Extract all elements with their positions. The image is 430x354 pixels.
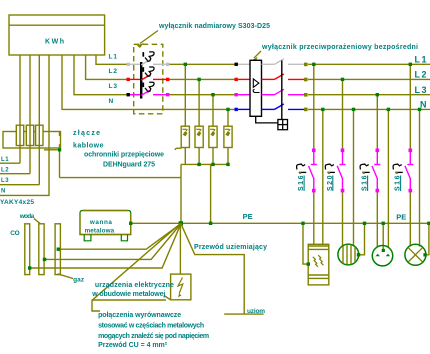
svg-text:w obudowie metalowej: w obudowie metalowej: [91, 291, 165, 298]
surge arrester feed 2 from L2: [198, 79, 200, 126]
breaker S16 trip hook: [393, 164, 402, 169]
fuse F3: [36, 125, 43, 145]
svg-text:YAKY4x25: YAKY4x25: [0, 199, 34, 206]
svg-text:L3: L3: [1, 178, 9, 184]
heater element zigzags: [313, 257, 318, 267]
pipe CO (pipe 2): [39, 224, 44, 275]
surge arrester V2: [195, 126, 203, 147]
svg-text:złącze: złącze: [73, 130, 100, 137]
svg-text:woda: woda: [19, 213, 35, 220]
bond junction dots on pipes: [28, 248, 60, 270]
breaker S16 label underline: [303, 176, 305, 192]
RCD test wire: [256, 116, 278, 123]
pipe gaz (pipe 3): [55, 224, 60, 275]
arrester down wire 3: [212, 148, 214, 165]
metal enclosure device box with lightning: [171, 274, 191, 300]
PEN-PE bridge bar: [44, 149, 60, 151]
woda leader line: [34, 219, 41, 224]
circuit 2 phase drop from L2: [342, 79, 344, 149]
arrow to breaker box: [137, 31, 158, 49]
lamp appliance: [405, 244, 426, 265]
arrester earth bus: [181, 163, 228, 165]
wire L2 olive after breaker: [169, 78, 235, 80]
svg-text:L1: L1: [109, 54, 118, 61]
breaker pole 3 blade and trip hook: [141, 90, 150, 95]
pipe woda (pipe 1): [25, 224, 30, 275]
svg-text:mogących znaleźć się pod napię: mogących znaleźć się pod napięciem: [98, 333, 209, 340]
RCD body U1: [250, 60, 262, 116]
wire meter input L2: [29, 55, 31, 174]
svg-text:wyłącznik nadmiarowy S303-D25: wyłącznik nadmiarowy S303-D25: [158, 23, 270, 30]
lightning bolt: [178, 278, 183, 294]
wire stubs into RCD colored: [238, 64, 250, 109]
circuit 4 wire below breaker: [409, 192, 411, 247]
lamp PE junction dot: [423, 253, 426, 256]
svg-text:L3: L3: [109, 83, 118, 90]
breaker pole 2 blade and trip hook: [141, 75, 150, 80]
junction PEN-PE: [58, 148, 61, 151]
svg-text:wanna: wanna: [89, 219, 112, 226]
kWh meter box: [9, 15, 105, 55]
RCD test box with cross: [278, 120, 288, 130]
wire meter output L1: [96, 55, 127, 64]
svg-text:L2: L2: [415, 70, 427, 80]
svg-text:PE: PE: [396, 212, 406, 221]
circuit 4 phase drop from L1: [409, 64, 411, 149]
surge arrester V3: [209, 126, 217, 147]
heater PE junction dot: [307, 262, 310, 265]
bathtub bond junction dot: [129, 222, 132, 225]
circuit 2 N drop: [353, 109, 355, 246]
wire L1 olive after breaker: [169, 63, 235, 65]
svg-text:L1: L1: [1, 157, 9, 163]
motor appliance circle: [338, 244, 359, 265]
junction dots circuits: [312, 63, 421, 112]
wire L3 olive after breaker: [169, 94, 235, 96]
breaker S20 trip hook: [325, 164, 334, 169]
svg-text:L2: L2: [109, 68, 118, 75]
svg-text:L2: L2: [1, 167, 9, 173]
bus L2: [308, 78, 430, 80]
wire L2 into breaker (red): [129, 78, 167, 80]
fuse F1: [16, 125, 23, 145]
bathtub feet: [84, 235, 91, 241]
PE drop to main node: [180, 164, 182, 223]
bond wire pipe2 to node: [45, 224, 181, 259]
svg-text:ochronniki przepięciowe: ochronniki przepięciowe: [84, 152, 164, 159]
PE bus: [131, 222, 430, 224]
surge arrester feed 3 from L3: [212, 95, 214, 127]
junction squares before RCD: [235, 63, 238, 66]
socket pins: [376, 254, 380, 257]
wire L3 into breaker (magenta): [129, 94, 167, 96]
svg-text:L1: L1: [415, 55, 427, 65]
circuit 3 N drop: [387, 109, 389, 247]
arrester earth drop to PE: [210, 164, 212, 223]
earthing conductor run: [181, 223, 245, 314]
RCD output L2 red with blade: [262, 74, 305, 79]
circuit 3 wire below breaker: [376, 192, 378, 248]
svg-text:N: N: [109, 98, 114, 105]
junction dots on buses for arresters: [184, 63, 230, 166]
breaker box dashed outline: [134, 44, 163, 114]
wire meter input N: [0, 55, 49, 195]
junction dots on PE bus: [209, 222, 430, 225]
wire cable L3 bend: [0, 184, 39, 186]
svg-text:PE: PE: [243, 212, 253, 221]
junction squares L3: [127, 93, 130, 96]
bathtub wanna metalowa: [80, 211, 131, 241]
breaker S16 circuit at x=377.3: [372, 152, 380, 190]
heater PE branch: [303, 223, 308, 264]
circuit 3 phase drop from L3: [376, 95, 378, 149]
svg-text:Przewód CU = 4 mm²: Przewód CU = 4 mm²: [98, 342, 168, 349]
wire cable L1 bend: [0, 162, 20, 164]
circuit 1 phase drop from L1: [313, 64, 315, 149]
svg-text:gaz: gaz: [73, 277, 85, 284]
svg-text:DEHNguard 275: DEHNguard 275: [103, 162, 155, 169]
circuit 1 wire below breaker: [313, 192, 315, 245]
svg-text:wyłącznik przeciwporażeniowy b: wyłącznik przeciwporażeniowy bezpośredni: [261, 44, 418, 51]
svg-text:urządzenia elektryczne: urządzenia elektryczne: [95, 282, 174, 289]
RCD linkage bar: [281, 61, 283, 120]
wire meter output L2: [86, 55, 127, 79]
wire meter input L3: [38, 55, 40, 185]
heater appliance (boiler): [308, 244, 329, 285]
bus L3: [308, 94, 430, 96]
PE takeoff stub above gap: [59, 132, 61, 137]
svg-text:metalowa: metalowa: [85, 228, 115, 235]
arrester down wire 4: [227, 148, 229, 165]
wire meter output L3: [74, 55, 127, 95]
wire L1 into breaker (gray): [129, 63, 167, 65]
junction squares olive after RCD: [304, 63, 308, 112]
fuse box zlacze kablowe: [3, 132, 61, 149]
svg-text:N: N: [1, 188, 5, 194]
fuse F2: [26, 125, 33, 145]
PE takeoff below gap: [59, 144, 61, 177]
circuit 4 N drop: [419, 109, 421, 246]
breaker S16 trip hook: [297, 164, 306, 169]
lamp PE branch: [425, 223, 429, 255]
wire meter input L1: [19, 55, 21, 163]
motor PE branch: [358, 223, 364, 255]
breaker S16 trip hook: [360, 164, 369, 169]
svg-text:kablowe: kablowe: [73, 143, 104, 150]
socket earth pin pad: [382, 249, 385, 252]
leader from node to bonding text: [92, 223, 181, 311]
junction squares L2 red: [127, 78, 130, 81]
arrow to RCD: [252, 51, 261, 62]
svg-text:L3: L3: [415, 85, 427, 95]
surge arrester V1: [181, 126, 189, 147]
metal enclosure device wire from node: [179, 223, 181, 274]
junction squares L1 gray: [127, 63, 130, 66]
PE run to main node: [60, 177, 182, 179]
circuit 1 N drop: [322, 109, 324, 244]
bond wire pipe1 to node: [30, 224, 181, 268]
breaker S16 label underline: [400, 176, 402, 192]
svg-text:stosować w częściach metalowyc: stosować w częściach metalowych: [98, 323, 204, 330]
breaker S20 circuit at x=342.5: [337, 152, 345, 190]
breaker pole 1 blade and trip hook: [141, 60, 150, 65]
leader hook to device box: [164, 296, 171, 300]
surge arrester V4: [224, 126, 232, 147]
RCD output N blue with blade: [262, 104, 305, 109]
svg-text:CO: CO: [10, 230, 20, 237]
socket appliance: [372, 246, 392, 266]
breaker S20 label underline: [332, 176, 334, 192]
kWh meter divider: [9, 24, 105, 26]
svg-text:K W h: K W h: [45, 39, 64, 46]
label underline w obudowie: [92, 299, 166, 301]
bus L1: [308, 63, 430, 65]
RCD output L1 gray with blade: [262, 59, 305, 64]
earth electrode bar: [224, 313, 263, 315]
RCD delta-I symbol: [253, 79, 259, 93]
motor PE junction dot: [357, 253, 360, 256]
arrester down wire 1: [184, 148, 186, 165]
breaker S16 label underline: [367, 176, 369, 192]
RCD output L3 magenta with blade: [262, 89, 305, 94]
svg-text:Przewód uziemiający: Przewód uziemiający: [194, 244, 267, 251]
main earthing node: [179, 221, 183, 225]
breaker S16 circuit at x=410.3: [405, 152, 413, 190]
svg-text:uziom: uziom: [247, 308, 265, 315]
svg-text:połączenia wyrównawcze: połączenia wyrównawcze: [98, 312, 181, 319]
surge arrester feed 1 from L1: [184, 64, 186, 126]
socket PE pin wire: [382, 223, 384, 249]
circuit 2 wire below breaker: [342, 192, 344, 247]
wire cable L2 bend: [0, 173, 30, 175]
gaz leader line: [58, 274, 73, 279]
breaker S16 circuit at x=313.8: [309, 152, 317, 190]
surge arrester feed 4 from N: [227, 109, 229, 126]
wire meter output N: [62, 55, 235, 109]
bond wire pipe3 to node: [58, 224, 180, 249]
breaker S303 tie bar: [140, 62, 142, 99]
arrester down wire 2: [198, 148, 200, 165]
bus N: [308, 108, 430, 110]
arrester earth tick: [175, 148, 182, 150]
